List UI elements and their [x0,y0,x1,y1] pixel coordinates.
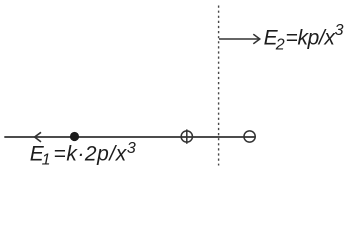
arrowhead E1 direction (left) [35,132,41,142]
charge +q circle [181,131,192,142]
vector E2 arrow shaft [219,38,259,40]
svg-text:E2=kp/x3: E2=kp/x3 [264,22,344,53]
charge +q vertical bar [186,129,188,143]
node P field point dot [70,132,79,141]
svg-text:E1=k·2p/x3: E1=k·2p/x3 [30,140,136,169]
wire main horizontal line [4,136,254,138]
dashed axis vertical dotted line [218,6,220,166]
charge -q circle [244,131,255,142]
vector E2 arrowhead (right) [253,34,259,44]
